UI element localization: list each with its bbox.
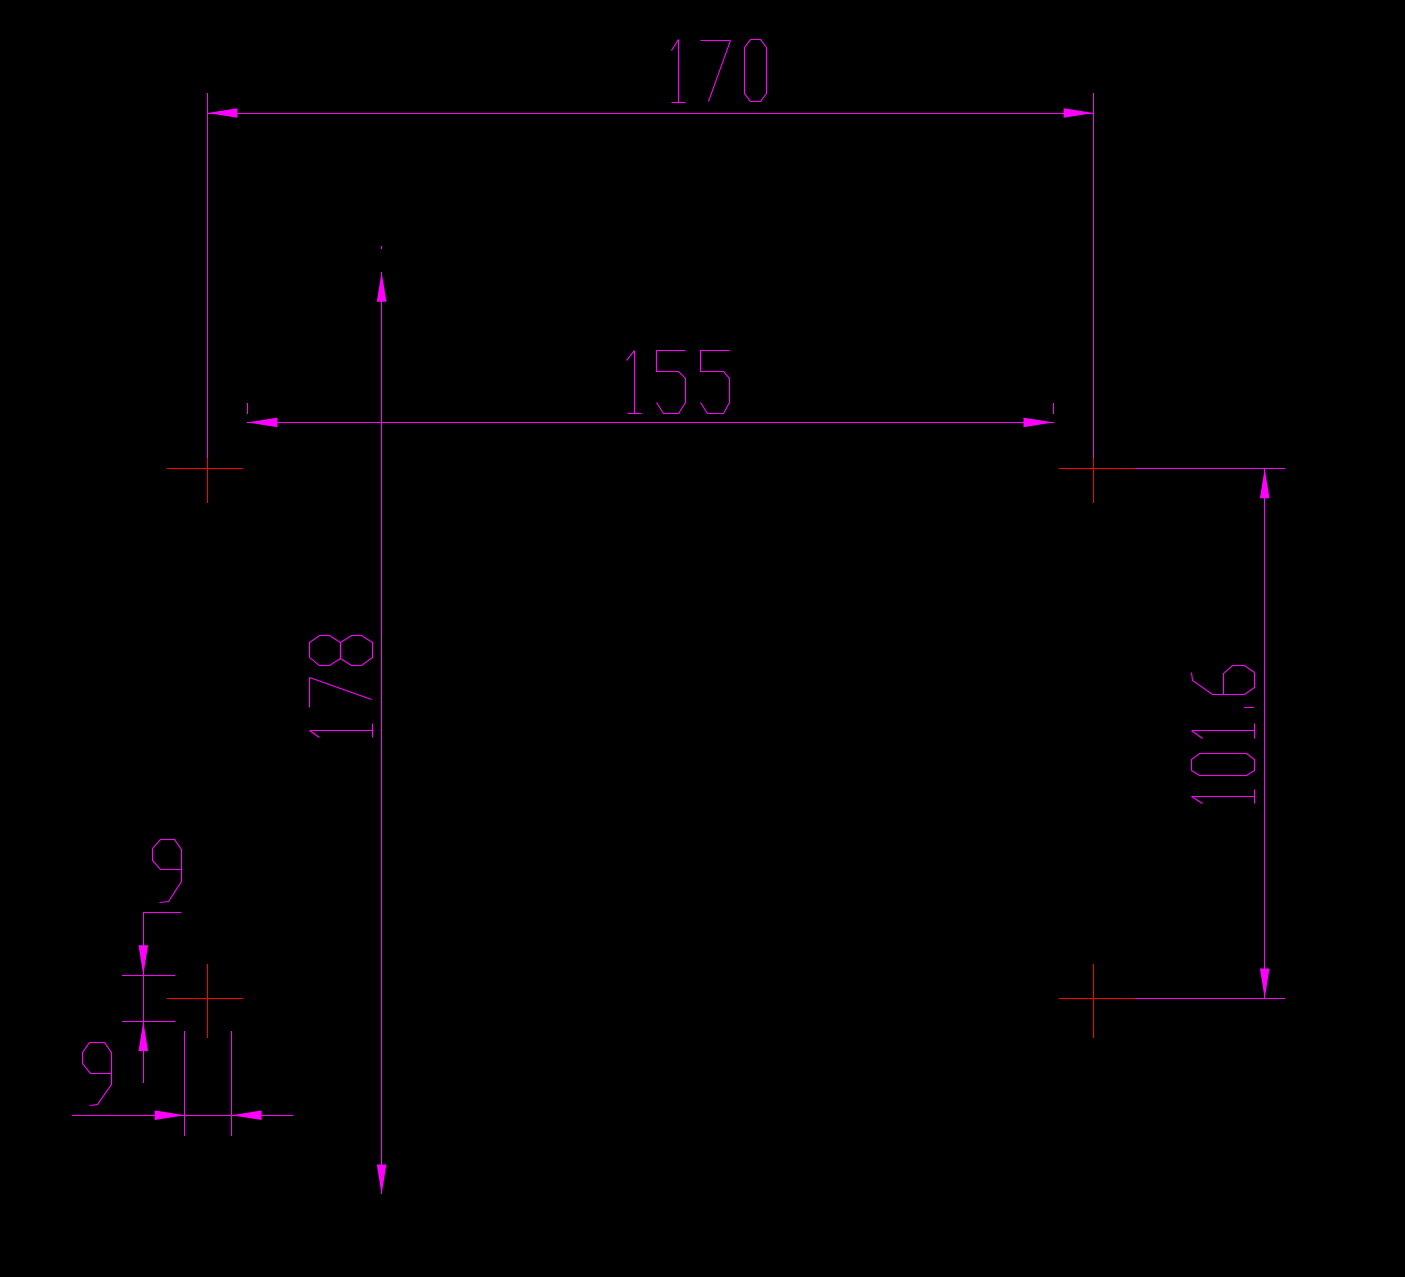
dim 9 horizontal extension tick right [231,1031,233,1136]
red cross marker hole top-left [167,468,243,470]
dim 178 dimension line [381,272,383,1194]
red cross marker hole top-right [1059,468,1135,470]
dim 101.6 text "101.6" rotated [1192,797,1203,804]
dim 9 vertical leader horizontal [143,912,181,914]
dim 9 horizontal extension tick left [184,1031,186,1136]
dim 9 vertical extension tick lower [122,1021,175,1023]
dim 101.6 arrow bottom [1260,969,1270,999]
dim 170 arrow left [207,108,237,118]
dim 170 dimension line [207,113,1094,115]
dim 9 vertical extension tick upper [122,975,175,977]
dim 155 extension stub right [1053,403,1055,414]
dim 155 dimension line [247,422,1054,424]
dim 178 stray tick above top arrow [381,246,383,249]
red cross marker hole bottom-right [1059,998,1135,1000]
dim 155 arrow right [1024,418,1054,428]
dim 101.6 arrow top [1260,468,1270,498]
dim 9 vertical arrow down [139,945,149,975]
dim 178 arrow top [377,272,387,302]
dim 9 horizontal dimension line [72,1115,293,1117]
dim 170 extension line right [1093,93,1095,458]
dim 9 horizontal arrow pointing right [155,1110,185,1120]
dim 9 vertical arrow up [139,1021,149,1051]
dim 178 text "178" rotated [310,731,320,738]
dim 101.6 extension line top [1135,468,1285,470]
dim 170 arrow right [1064,108,1094,118]
dim 178 arrow bottom [377,1165,387,1195]
dim 9 vertical dimension line [143,912,145,1083]
dim 155 extension stub left [247,403,249,414]
dim 170 extension line left [207,93,209,458]
dim 170 text "170" [672,40,679,51]
dim 101.6 dimension line [1264,468,1266,998]
dim 155 arrow left [247,418,277,428]
dim 101.6 extension line bottom [1135,998,1285,1000]
dim 101.6 decimal point [1244,707,1254,709]
dim 9 horizontal arrow pointing left [232,1110,262,1120]
dim 155 text "155" [627,351,635,361]
dim 9 horizontal text "9" [83,1043,112,1074]
red cross marker hole bottom-left [167,998,243,1000]
dim 9 vertical text "9" [153,840,182,870]
